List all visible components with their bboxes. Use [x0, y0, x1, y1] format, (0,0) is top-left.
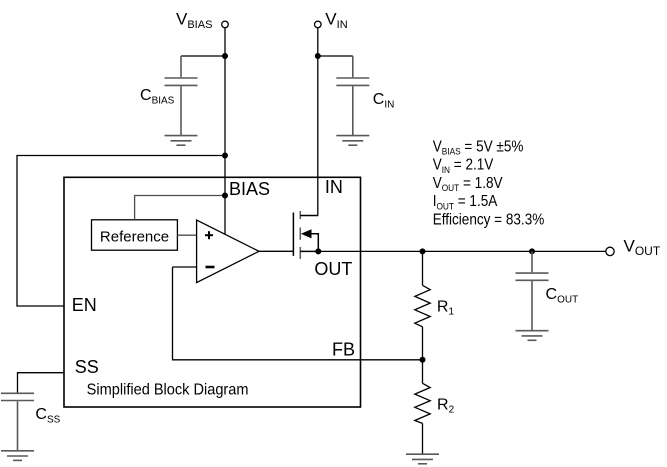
op-amp - input marker [206, 266, 215, 269]
wire - input feedback [173, 266, 197, 268]
block Reference U_ref [92, 220, 178, 250]
channel dash body [299, 228, 301, 240]
wire op-amp output to gate [259, 250, 293, 252]
svg-text:Reference: Reference [100, 229, 169, 246]
svg-text:FB: FB [332, 340, 355, 360]
wire OUT rail [318, 250, 606, 252]
junction V_BIAS / C_BIAS [222, 53, 228, 59]
svg-text:IN: IN [325, 177, 343, 197]
transistor Q1 PMOS pass element [293, 211, 318, 259]
op-amp U1 (error amplifier) [197, 220, 259, 283]
channel dash source [299, 211, 301, 219]
wire EN net from V_BIAS rail [17, 156, 225, 307]
wire FB net [173, 267, 424, 360]
wire V_BIAS rail [224, 28, 226, 235]
svg-text:SS: SS [75, 357, 99, 377]
junction drain / OUT [315, 248, 321, 254]
wire C_BIAS branch [181, 55, 225, 57]
svg-text:BIAS: BIAS [229, 179, 270, 199]
source stub [300, 215, 318, 217]
junction V_BIAS / EN wire [222, 153, 228, 159]
svg-text:OUT: OUT [314, 259, 352, 279]
ground (C_IN) [336, 136, 369, 146]
capacitor C_IN [336, 56, 369, 135]
IC block (Simplified Block Diagram) [64, 177, 361, 407]
ground (C_BIAS) [165, 136, 198, 146]
parameter text block [433, 139, 545, 229]
svg-text:Efficiency = 83.3%: Efficiency = 83.3% [433, 212, 545, 229]
wire V_IN rail [317, 28, 319, 216]
junction BIAS node [222, 193, 228, 199]
svg-text:Simplified Block Diagram: Simplified Block Diagram [87, 381, 249, 399]
wire C_IN branch [318, 55, 353, 57]
junction FB node [420, 357, 426, 363]
channel dash drain [299, 247, 301, 259]
junction OUT / R1 [420, 248, 426, 254]
capacitor C_BIAS [165, 56, 198, 135]
wire SS branch [18, 373, 65, 393]
junction OUT / C_OUT [529, 248, 535, 254]
capacitor C_OUT [516, 251, 549, 330]
resistor R2 [415, 360, 430, 454]
ground (C_OUT) [516, 331, 549, 341]
terminal V_BIAS [222, 21, 229, 28]
wire Reference to BIAS net [135, 196, 225, 220]
transistor body arrow [301, 229, 312, 238]
gate bar [292, 213, 294, 256]
resistor R1 [415, 251, 430, 359]
drain stub [300, 250, 318, 252]
junction V_IN / C_IN [315, 53, 321, 59]
svg-text:EN: EN [72, 295, 97, 315]
ground (C_SS) [1, 451, 34, 461]
terminal V_IN [315, 21, 322, 28]
terminal V_OUT [606, 247, 614, 255]
ground (R2) [406, 454, 439, 464]
body wire [312, 234, 319, 252]
capacitor C_SS [1, 393, 34, 450]
wire Reference output to op-amp + input [177, 234, 196, 236]
op-amp + input marker [205, 231, 213, 239]
